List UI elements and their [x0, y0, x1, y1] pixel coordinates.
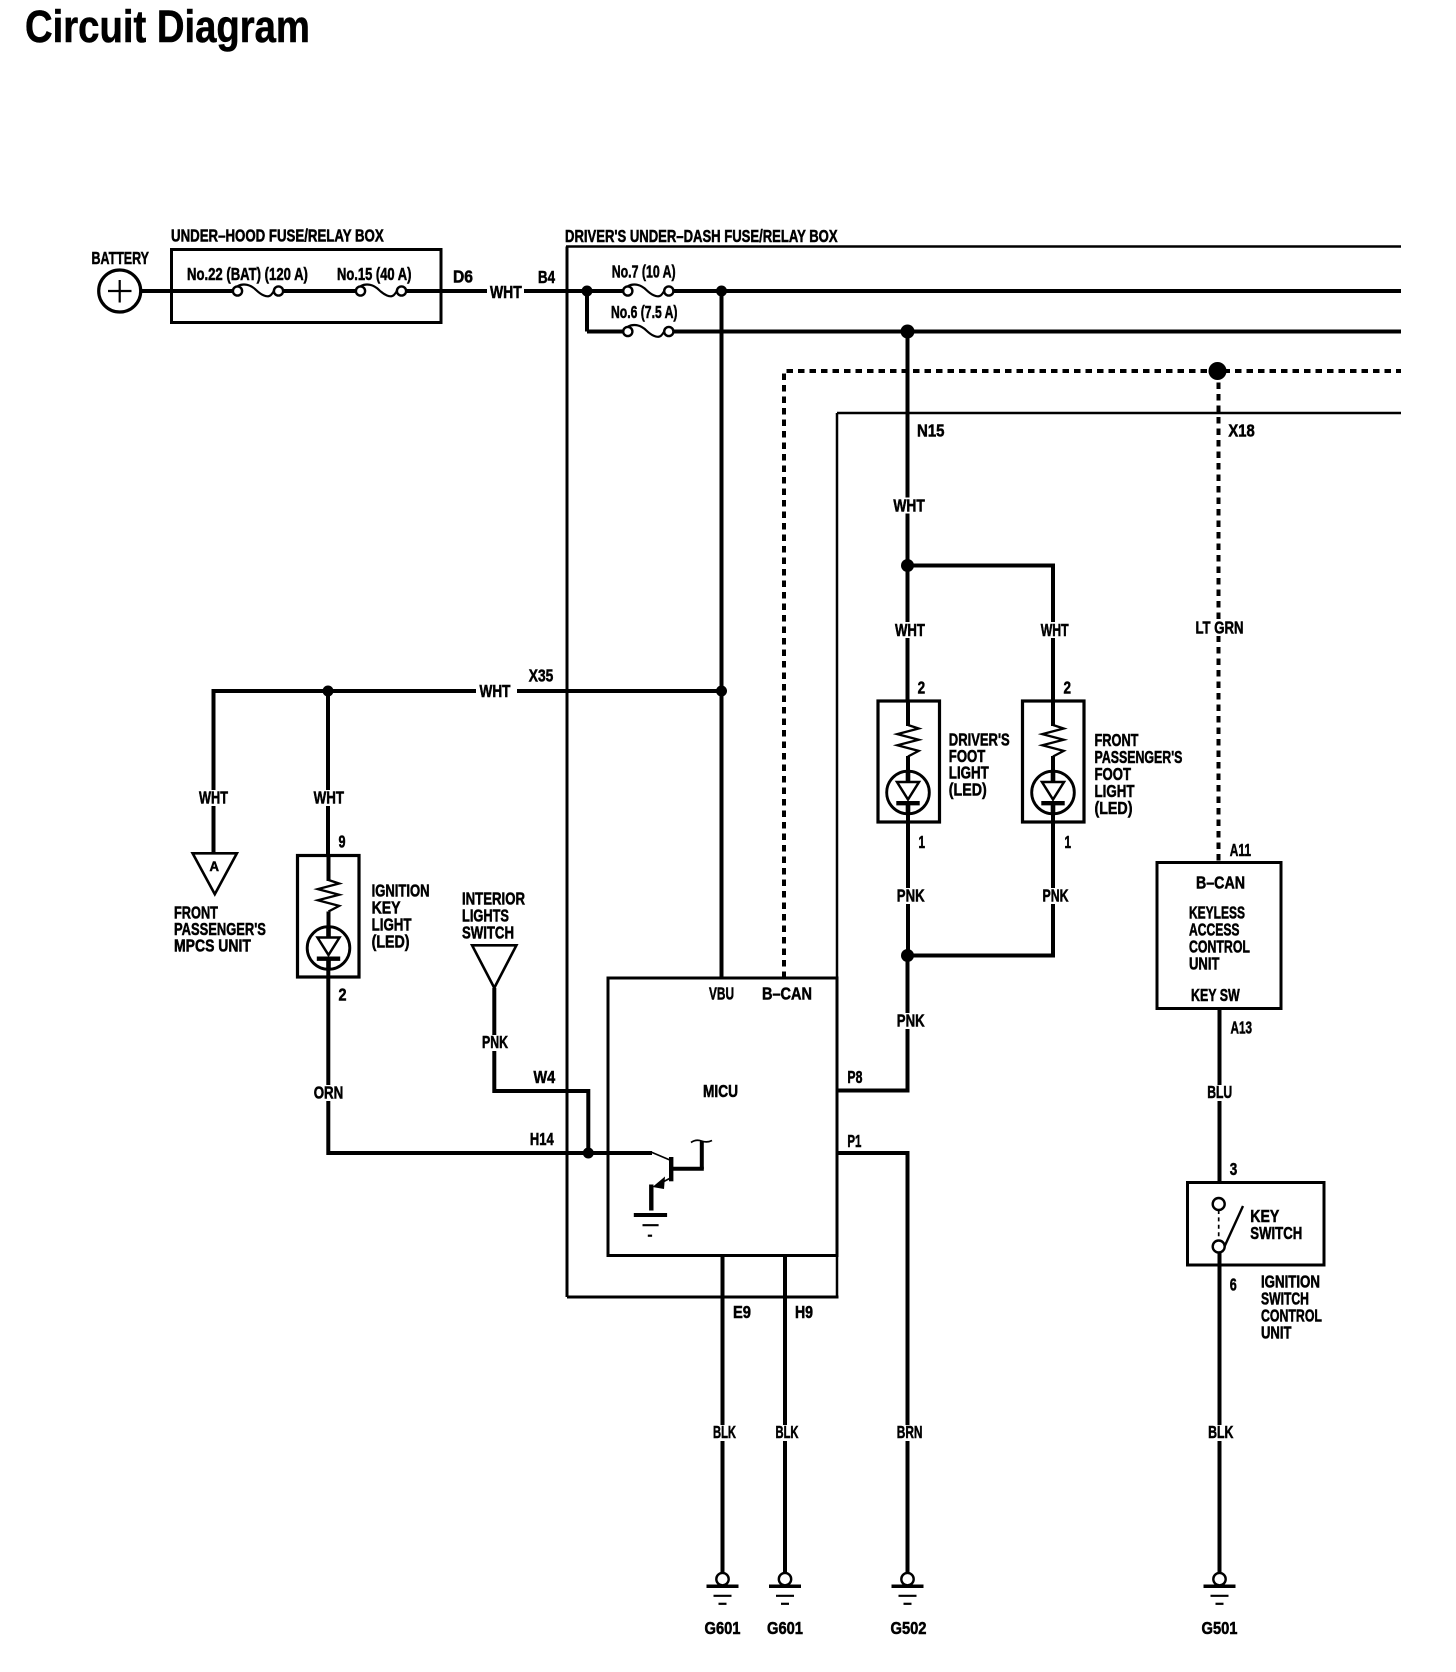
- svg-text:WHT: WHT: [490, 284, 522, 303]
- svg-text:PNK: PNK: [897, 887, 925, 906]
- wire WHT label left: [892, 622, 927, 638]
- wire BLU keyless to key switch: [1218, 1009, 1222, 1199]
- MICU box: [608, 978, 837, 1256]
- svg-text:BATTERY: BATTERY: [92, 249, 149, 269]
- svg-text:9: 9: [339, 833, 346, 853]
- svg-text:N15: N15: [917, 421, 944, 440]
- svg-text:G601: G601: [705, 1619, 741, 1638]
- wire WHT to ignition key light: [326, 691, 330, 856]
- svg-text:X18: X18: [1228, 421, 1254, 440]
- junction ignition key light branch: [323, 686, 334, 697]
- wire X35 row WHT: [212, 689, 477, 693]
- svg-text:UNIT: UNIT: [1261, 1324, 1292, 1343]
- svg-text:WHT: WHT: [314, 789, 345, 808]
- junction foot light split: [901, 559, 914, 572]
- wire WHT label right: [1038, 622, 1071, 638]
- svg-text:SWITCH: SWITCH: [1250, 1224, 1302, 1243]
- svg-text:W4: W4: [534, 1068, 556, 1088]
- wire to front passenger foot light: [908, 566, 1054, 702]
- svg-text:H9: H9: [795, 1304, 813, 1323]
- front passenger's foot light (LED): [1023, 701, 1085, 822]
- svg-text:(LED): (LED): [1095, 800, 1133, 819]
- svg-text:A: A: [210, 859, 220, 874]
- svg-text:IGNITION: IGNITION: [372, 882, 430, 901]
- svg-text:PNK: PNK: [897, 1012, 925, 1031]
- wire E9 BLK: [721, 1256, 725, 1573]
- svg-text:WHT: WHT: [893, 497, 925, 516]
- svg-text:A13: A13: [1231, 1019, 1252, 1038]
- svg-text:D6: D6: [453, 267, 473, 287]
- ground G501: [1204, 1573, 1236, 1604]
- svg-text:BLK: BLK: [713, 1424, 736, 1443]
- key switch S1: [1188, 1183, 1325, 1266]
- junction to VBU wire: [716, 286, 727, 297]
- dashed B-CAN drop to keyless unit: [1217, 371, 1221, 863]
- svg-text:LIGHT: LIGHT: [372, 916, 412, 935]
- svg-text:VBU: VBU: [709, 984, 734, 1004]
- svg-text:PNK: PNK: [482, 1033, 508, 1053]
- svg-text:B4: B4: [538, 268, 555, 287]
- svg-text:6: 6: [1230, 1276, 1237, 1296]
- svg-text:LIGHT: LIGHT: [949, 764, 989, 783]
- svg-text:No.22 (BAT) (120 A): No.22 (BAT) (120 A): [187, 265, 308, 284]
- svg-text:ORN: ORN: [314, 1084, 344, 1103]
- svg-text:No.7 (10 A): No.7 (10 A): [612, 262, 676, 282]
- svg-text:MICU: MICU: [703, 1083, 738, 1102]
- svg-text:G501: G501: [1202, 1619, 1238, 1638]
- svg-text:G502: G502: [891, 1619, 927, 1638]
- svg-text:No.15 (40 A): No.15 (40 A): [337, 265, 411, 284]
- svg-text:BRN: BRN: [897, 1423, 923, 1443]
- svg-text:WHT: WHT: [480, 682, 511, 701]
- wire PNK to P8: [837, 956, 908, 1091]
- junction PNK merge: [901, 949, 914, 962]
- junction H14: [583, 1148, 594, 1159]
- svg-text:MPCS UNIT: MPCS UNIT: [174, 937, 251, 956]
- connector arrow A to MPCS unit: [193, 853, 237, 894]
- wire battery to under-hood box: [141, 289, 233, 293]
- svg-text:WHT: WHT: [199, 789, 229, 808]
- svg-text:UNDER–HOOD FUSE/RELAY BOX: UNDER–HOOD FUSE/RELAY BOX: [171, 227, 384, 246]
- svg-text:G601: G601: [767, 1619, 803, 1638]
- svg-text:BLU: BLU: [1207, 1083, 1232, 1103]
- svg-text:B–CAN: B–CAN: [762, 984, 812, 1004]
- svg-text:(LED): (LED): [949, 781, 987, 800]
- svg-text:H14: H14: [530, 1130, 554, 1149]
- svg-text:2: 2: [918, 679, 926, 698]
- svg-text:(LED): (LED): [372, 933, 410, 952]
- wire branch down to fuse No.6: [585, 291, 589, 332]
- wire N15 drop WHT: [906, 332, 910, 702]
- svg-text:A11: A11: [1230, 841, 1251, 861]
- wire H9 BLK: [783, 1256, 787, 1573]
- wire LT GRN label: [1194, 619, 1246, 636]
- wire VBU drop: [720, 291, 724, 978]
- dashed B-CAN bus wire: [784, 371, 1401, 978]
- junction N15 feed: [901, 325, 915, 339]
- transistor Q1 in MICU: [651, 1152, 671, 1161]
- svg-text:3: 3: [1230, 1160, 1238, 1179]
- svg-text:B–CAN: B–CAN: [1196, 874, 1245, 893]
- wire PNK driver's foot light: [906, 813, 910, 956]
- svg-text:1: 1: [1065, 834, 1072, 853]
- svg-text:1: 1: [919, 834, 926, 853]
- svg-text:DRIVER'S UNDER–DASH FUSE/RELAY: DRIVER'S UNDER–DASH FUSE/RELAY BOX: [565, 227, 838, 246]
- wire WHT to MPCS arrow: [212, 689, 216, 853]
- wire B4 into under-dash box: [524, 289, 1401, 293]
- svg-text:2: 2: [339, 986, 347, 1005]
- svg-text:WHT: WHT: [1041, 621, 1070, 641]
- wire PNK from interior lights switch to W4: [494, 988, 588, 1153]
- wire P1 BRN: [837, 1153, 908, 1573]
- wire ORN to H14: [328, 968, 652, 1153]
- ground G502 (BRN): [892, 1573, 924, 1604]
- svg-text:P8: P8: [847, 1068, 862, 1088]
- svg-text:PNK: PNK: [1043, 886, 1069, 906]
- svg-text:BLK: BLK: [776, 1424, 799, 1443]
- svg-text:KEY SW: KEY SW: [1191, 986, 1240, 1006]
- svg-text:P1: P1: [847, 1133, 861, 1152]
- wire PNK front passenger's foot light: [908, 813, 1054, 956]
- svg-text:LT GRN: LT GRN: [1196, 619, 1244, 638]
- ignition key light (LED): [298, 856, 360, 978]
- ground G601 (H9): [769, 1573, 801, 1604]
- svg-text:LIGHT: LIGHT: [1095, 782, 1135, 801]
- driver's foot light (LED): [878, 701, 940, 822]
- svg-text:No.6 (7.5 A): No.6 (7.5 A): [611, 303, 677, 323]
- wire through under-hood fuses: [232, 289, 487, 293]
- wire BLK to G501: [1204, 1425, 1235, 1441]
- svg-text:SWITCH: SWITCH: [462, 924, 514, 943]
- svg-text:UNIT: UNIT: [1189, 955, 1220, 974]
- junction X35 at VBU wire: [716, 686, 727, 697]
- ground G601 (E9): [707, 1573, 739, 1604]
- svg-text:WHT: WHT: [895, 621, 925, 640]
- svg-text:2: 2: [1064, 679, 1072, 698]
- svg-text:E9: E9: [733, 1303, 751, 1322]
- svg-text:X35: X35: [529, 667, 554, 686]
- wire from key switch lower terminal: [1218, 1253, 1222, 1573]
- keyless access control unit U2: [1157, 863, 1281, 1009]
- node B4 junction: [582, 286, 593, 297]
- svg-text:BLK: BLK: [1208, 1423, 1233, 1443]
- transistor ground: [634, 1213, 667, 1217]
- svg-text:Circuit Diagram: Circuit Diagram: [25, 1, 310, 52]
- junction on B-CAN bus: [1209, 362, 1227, 380]
